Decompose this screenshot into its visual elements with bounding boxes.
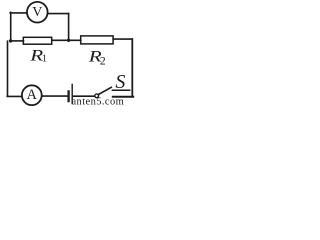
svg-text:anten5.com: anten5.com [72,97,125,107]
svg-text:1: 1 [42,53,47,64]
wire R2 to right corner [113,38,132,40]
battery cell negative plate (short thick) [67,91,69,101]
resistor R1 box [23,37,51,44]
wire bottom-right horizontal [113,96,133,98]
node J1 junction dot [9,39,12,42]
wire main left vertical [7,41,9,96]
switch S fixed contact line [112,89,129,91]
switch S pivot circle [95,94,99,98]
node J2 junction dot [67,39,70,42]
svg-text:2: 2 [100,53,106,67]
wire battery to switch [73,95,94,97]
wire voltmeter loop left vertical [10,12,12,41]
svg-text:V: V [32,5,42,20]
wire top-right horizontal [48,13,68,15]
wire bottom-left horizontal [7,95,21,97]
wire main right vertical [131,39,133,96]
resistor R2 box [81,36,113,44]
wire top-left horizontal [10,12,26,14]
switch S lever arm [98,87,111,94]
svg-text:A: A [27,87,38,103]
ammeter A1 circle [22,85,42,105]
voltmeter V1 circle [27,2,48,23]
wire between R1 and R2 [52,39,81,41]
battery cell positive plate (long thin) [71,84,73,103]
wire middle row left segment [11,40,24,42]
svg-text:S: S [115,71,125,93]
wire voltmeter loop right vertical [68,13,70,40]
wire ammeter to battery [43,95,68,97]
